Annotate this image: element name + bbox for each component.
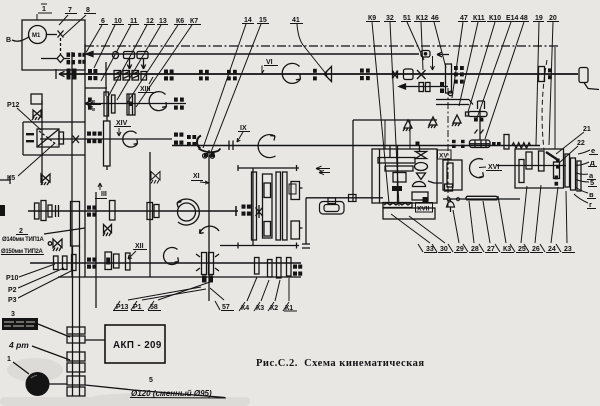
lower pinion line y86 [399, 86, 448, 88]
leader 30 [409, 216, 445, 243]
lead from B to motor [12, 37, 30, 42]
leader 22 [559, 146, 578, 163]
rotation arrow IX big [258, 135, 275, 158]
rotation arc y227 [200, 226, 220, 233]
VI underline arrow [262, 66, 278, 74]
norton vertical shaft [390, 146, 398, 204]
underlines 33..23 [424, 252, 575, 254]
arrow with flange marks at x88 y104 [87, 102, 101, 107]
shift drum 1 [124, 52, 135, 59]
gears on shaft X y103 [88, 98, 184, 110]
gear pair x188 [187, 135, 191, 139]
underlines K9..20 [366, 21, 559, 23]
ticks right boxes [300, 188, 303, 228]
fork arrow 2 [141, 59, 145, 70]
gear pairs x200 [199, 70, 203, 74]
leader 7 [59, 15, 68, 25]
leader в [576, 188, 588, 194]
small box x290 y184 [289, 184, 296, 194]
leader 28 [469, 201, 474, 243]
leader 58 [158, 282, 210, 300]
hatched gear on shaft X [127, 94, 135, 115]
rounded gear box x404 [404, 69, 414, 80]
triple gears left [54, 256, 59, 270]
dark center of clutch gear [87, 258, 213, 283]
leader 41 [297, 24, 327, 75]
leader 19 [536, 22, 539, 145]
wall x209 [208, 150, 210, 301]
top row labels 1 7 8 [42, 6, 90, 14]
tick marks 11 on shaft VIII [229, 141, 233, 151]
rotation arrow y257 [164, 247, 179, 264]
column gear 4 [283, 172, 288, 240]
leader P3 [18, 270, 73, 298]
leadscrew [470, 140, 491, 148]
arrow on pinion line [399, 84, 406, 89]
sliding block gears on shaft II [114, 71, 121, 81]
gear unit bottom edge [85, 87, 107, 89]
dashed curve x543 [542, 60, 547, 150]
paper smudges [0, 358, 250, 406]
dashed vertical link [60, 38, 62, 54]
dash-dot vertical x448 [447, 88, 449, 208]
arrow to XVI [428, 181, 442, 183]
small gears under lever [204, 153, 208, 157]
leader 15 [211, 24, 261, 152]
underline е [587, 155, 598, 209]
inner wall of norton box [379, 149, 381, 203]
AKP-209 box [105, 325, 165, 363]
flange pair upper [67, 327, 85, 334]
leader 8 [63, 15, 86, 36]
rotation arc XVI [470, 159, 484, 178]
fork arrow 1 [127, 59, 131, 70]
bow-tie support K5 [41, 174, 50, 185]
leader а [576, 173, 588, 174]
slashes 33..23 [418, 244, 561, 252]
leader K9 [372, 22, 389, 203]
umbrella half disc [413, 182, 426, 187]
norton slide box [393, 173, 406, 183]
variator end cap [59, 132, 64, 144]
lever crescent x200 [197, 136, 201, 149]
bow-tie support x155 [151, 172, 160, 184]
leader K5 [18, 143, 55, 176]
dark feet sliding gear [202, 276, 207, 283]
lever swash below [199, 149, 221, 153]
rollers on rack line [447, 197, 460, 200]
right box a [291, 182, 300, 200]
leader 13 [117, 25, 161, 100]
gear K3 [268, 260, 273, 278]
handwheel black disc [26, 372, 50, 396]
label row 6..K7 [101, 17, 300, 25]
leader е [578, 150, 590, 154]
leader 48 [485, 22, 524, 139]
leader 33 [391, 214, 430, 243]
letters column е д а б в г [589, 146, 595, 209]
leader 51 [407, 22, 424, 60]
norton gearbox frame [372, 149, 437, 203]
leader д [576, 162, 589, 166]
bell crank x455 [447, 200, 455, 213]
solid vertical x555 [554, 47, 556, 149]
coupling dark pair on shaft II [67, 69, 71, 80]
right bar 2 [571, 158, 576, 190]
wire upper control rod [85, 53, 419, 55]
cylinder nub [466, 112, 469, 116]
apron small gear marks [452, 118, 560, 186]
gear pairs x165 [164, 70, 168, 74]
column gear 1 [252, 172, 257, 240]
cylinder bar y113 [469, 112, 488, 117]
edge gear mark at left [0, 205, 5, 216]
narrow gear x126 [126, 253, 131, 270]
leader P2 [18, 268, 64, 288]
worm disc [415, 163, 428, 171]
leader 57 [210, 288, 224, 300]
black name plate [2, 318, 38, 330]
leader from plate [38, 324, 70, 337]
norton bottom rack bar [383, 203, 412, 208]
shift drum ellipse on rod [113, 51, 119, 58]
shaft gearbox lower y263 [30, 262, 301, 264]
leader 32 [390, 22, 399, 206]
leader 11 [101, 25, 131, 81]
gear pairs x228 [227, 70, 231, 74]
norton bar 1 [378, 158, 415, 164]
column gear 3 [276, 172, 281, 240]
leader K11 [459, 22, 478, 106]
gear pairs x454 on shaft II [440, 66, 552, 93]
big vertical gear x72 [71, 202, 80, 247]
arrow end of rod [437, 52, 449, 57]
tiny tick marks left of variator [26, 133, 34, 142]
gear marks right of motor box [78, 53, 81, 57]
bevel X mid [256, 205, 263, 218]
tall gear x446 [446, 64, 452, 93]
flange pair lower [67, 376, 85, 385]
leader K2 [275, 280, 280, 301]
rod down to leadscrew [479, 109, 481, 140]
XIII underline [138, 77, 156, 93]
gear pairs x242 y210 [242, 205, 251, 216]
flange pair middle [67, 352, 85, 361]
pivot circle [48, 242, 52, 246]
clutch X x417 [417, 70, 426, 79]
right bar 1 [565, 154, 570, 187]
rod x42 [41, 100, 43, 185]
XI underline arrow [191, 181, 209, 185]
right box b [291, 221, 300, 239]
coupling marks x393 [393, 71, 398, 79]
clutch gear x105 [105, 252, 112, 270]
wire left of diamond [41, 58, 57, 60]
bow-tie support upper [32, 110, 41, 120]
leader 29 [453, 210, 459, 243]
worm triangle [417, 173, 426, 180]
wall x96 lower [95, 192, 97, 308]
bevel pair top right [416, 152, 427, 159]
IX underline arrow [237, 132, 250, 143]
rod x306 [302, 198, 310, 248]
shaft VIII feed [172, 145, 540, 147]
gear cluster triple row upper [87, 132, 183, 145]
clutch X on variator shaft [73, 136, 80, 144]
gear stack left on shaft y211 [35, 203, 40, 219]
tick marks above screw [475, 130, 484, 134]
vertical gear upper on shaft X [104, 92, 109, 116]
XIV underline and arrow [114, 127, 131, 137]
variator diagonal [37, 129, 59, 147]
leader 10 [94, 25, 115, 68]
inner box 2b [264, 222, 271, 237]
inner box 2a [264, 183, 271, 198]
pump inlet box [328, 198, 336, 204]
shaft X upper-left [85, 103, 186, 105]
leader K1 [288, 278, 290, 301]
gear block x148 [147, 203, 153, 220]
vertical shaft IV double line [73, 246, 80, 396]
spring on feed rod [512, 143, 531, 149]
bow-tie support x55 y243 [53, 239, 62, 251]
gear pair on vertical shaft below motor [67, 53, 86, 65]
stub wire to left edge [0, 176, 10, 184]
XIV gear tall vertical [104, 121, 111, 166]
gear pairs x87 y211 [87, 206, 96, 217]
gear K1 [287, 258, 292, 277]
slash marks for mid labels [114, 301, 289, 311]
gear x505 [504, 135, 509, 150]
shaft X end arrow [85, 101, 91, 106]
bow-tie support x107 y228 [103, 225, 112, 237]
gear K2 [277, 258, 282, 279]
pinion gear pair [419, 83, 424, 92]
double arrow marks x320 y170 [316, 166, 330, 175]
bevel cone on shaft II [324, 67, 332, 82]
vertical bevel shaft x106 [105, 62, 107, 96]
oil pump rounded box [320, 195, 455, 215]
leader г [574, 194, 588, 203]
gear pairs x88 [88, 69, 92, 73]
circle on dash line [448, 91, 452, 95]
shaft II main [59, 73, 578, 75]
rack bar [466, 196, 498, 200]
leader K7 [136, 25, 192, 107]
gear x539 [539, 67, 545, 82]
leader P12 [17, 108, 41, 130]
rotation arrow shaft X [149, 92, 166, 111]
rack line left [306, 197, 383, 199]
thick dark diagonal in apron [546, 152, 558, 160]
gear pair x361 [360, 69, 364, 73]
column gear 2 outer [263, 174, 273, 238]
clutch X at motor shaft [58, 31, 64, 38]
support triangle 3 [452, 115, 461, 126]
label XV boxed [438, 150, 452, 159]
underline K1 [113, 310, 297, 313]
leader E14 [477, 22, 511, 118]
leader K4 [247, 277, 257, 301]
rotation arrow VI shaft [282, 63, 300, 83]
leader 27 [483, 201, 490, 243]
label XVII boxed [416, 203, 433, 213]
crank handle [584, 83, 599, 90]
leader P13 [128, 287, 201, 300]
shaft gearbox upper y211 [28, 206, 238, 216]
leader K6 [127, 25, 178, 103]
vertical x419 in norton [419, 146, 421, 153]
gear K4 [255, 258, 260, 275]
dark square in norton [392, 142, 429, 203]
worm box [412, 192, 428, 200]
variator box [37, 129, 59, 147]
shift drum 2 [137, 52, 148, 59]
handwheel highlight [31, 376, 37, 379]
solenoid box P12 [31, 94, 42, 104]
apron gear bar 3 [519, 160, 524, 183]
wire flange to AKP [85, 339, 105, 341]
coupling diamond [57, 55, 64, 63]
rod x353 [352, 120, 354, 202]
support triangle 1 [403, 120, 412, 131]
III underline arrow [95, 183, 107, 199]
variator diagonal dashed [39, 131, 57, 145]
cluster frame top [220, 245, 299, 247]
wire right of diamond [65, 58, 71, 60]
end flange right [579, 68, 588, 83]
apron box [515, 149, 564, 188]
variator frame [23, 122, 85, 155]
support triangle 2 [428, 117, 437, 128]
leader from label2 text [44, 228, 85, 234]
wall x150 [149, 152, 151, 277]
tumbler frame left [443, 160, 462, 190]
apron shaft line [497, 165, 566, 167]
gear pair right of variator [174, 133, 178, 137]
scan noise overlay [0, 0, 1, 1]
wall left x72 [71, 52, 73, 277]
frame end ticks [238, 165, 297, 249]
apron gear bar 1 [526, 152, 532, 169]
leader 12 [108, 25, 147, 97]
motor M1 [29, 26, 47, 44]
rotation arrow variator shaft [123, 131, 138, 147]
small coupling x55 [56, 205, 59, 217]
leader P10 [19, 264, 55, 277]
narrow gear x112 on y211 [110, 201, 116, 221]
underline spec2 [1, 235, 44, 255]
gear pair x314 [313, 69, 317, 73]
underlines for 1 7 8 [37, 4, 96, 20]
wall x85 [84, 44, 86, 277]
leader K12 [421, 22, 423, 70]
control rod to norton [353, 119, 437, 121]
XVI underline arrow [479, 167, 502, 171]
gear pairs x293 y268 [293, 265, 302, 276]
square on rack line [349, 195, 357, 202]
bar step bracket [478, 101, 485, 109]
gearbox bottom wall [58, 276, 301, 278]
wall x253 [252, 168, 254, 245]
leader 47 [452, 22, 463, 98]
small rollers [203, 154, 207, 158]
shaft variator left [40, 138, 172, 140]
leader 26 [535, 185, 541, 243]
leader 4pm [32, 346, 70, 360]
tumbler gear bar [447, 163, 453, 187]
rod down from control box [431, 56, 435, 70]
XII underline arrow [128, 250, 147, 260]
leader 1 [13, 362, 29, 374]
centerline spindle dash-dot [85, 45, 560, 47]
upper bar y100 [436, 100, 473, 105]
spline arrows around sliding gear [196, 254, 219, 271]
sliding gear x203 [202, 253, 207, 275]
norton bar 2 [385, 166, 413, 171]
gear pairs x87 y262 [87, 258, 91, 262]
cluster frame upper [238, 167, 299, 169]
leader 14 [203, 24, 246, 148]
leader 46 [434, 22, 446, 68]
leader 24 [551, 187, 558, 243]
wire motor to clutch [46, 34, 57, 36]
right label row K9..20 [368, 15, 557, 22]
rotation arrow y211 double [178, 203, 196, 221]
leader K3 [261, 280, 269, 301]
control box on rod [421, 51, 430, 58]
apron gear bar 4 [554, 162, 560, 179]
right bar 3 [577, 161, 581, 191]
rods from control bar down [385, 120, 410, 149]
wire handwheel shaft [49, 384, 225, 398]
rack line right [443, 198, 520, 200]
leader 23 [566, 191, 567, 243]
leader б [576, 180, 589, 183]
leader K3b [498, 196, 506, 243]
shaft II left end arrow [56, 69, 65, 79]
motor box frame [22, 20, 85, 70]
leader P1 [142, 289, 206, 300]
leader 6 [86, 25, 102, 53]
leader 25 [521, 186, 527, 243]
apron gear bar 2 [539, 151, 545, 171]
second thin gear [112, 95, 116, 113]
norton bottom box [383, 208, 435, 219]
leader K10 [468, 22, 495, 112]
leader 20 [549, 22, 553, 145]
leader 21 [556, 132, 584, 154]
underlines 6..41 [99, 24, 303, 25]
